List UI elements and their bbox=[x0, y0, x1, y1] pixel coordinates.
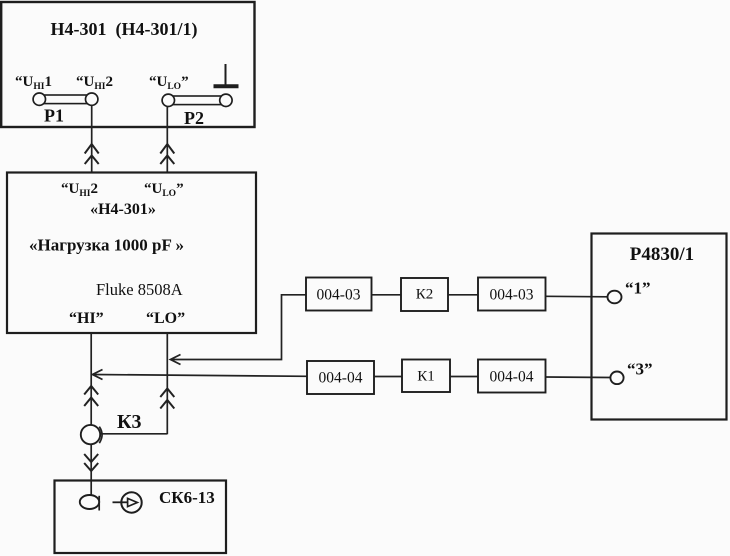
shorting bar P2 bbox=[162, 94, 232, 106]
wire HI down from load box bbox=[90, 334, 92, 426]
shorting bar P1 bbox=[33, 93, 98, 105]
CK6-13 input connector bbox=[80, 495, 99, 509]
wire UHI2 from P1 to load box bbox=[91, 105, 93, 172]
svg-text:P1: P1 bbox=[44, 106, 64, 126]
wire ULO from P2 to load box bbox=[166, 106, 168, 172]
svg-text:К3: К3 bbox=[117, 411, 142, 433]
box 004-04 right bbox=[478, 360, 546, 393]
wire LO down from load box bbox=[166, 334, 168, 435]
terminal 1 circle bbox=[608, 291, 622, 304]
signal source symbol circled arrow bbox=[113, 492, 142, 512]
arrow junction 004-03 line into LO wire bbox=[171, 355, 181, 365]
arrow up double on UHI2 wire bbox=[85, 144, 99, 164]
svg-text:К1: К1 bbox=[417, 369, 435, 385]
wire 004-03 to terminal 1 bbox=[546, 295, 608, 298]
svg-text:СК6-13: СК6-13 bbox=[159, 488, 215, 507]
connector tick bbox=[98, 496, 100, 511]
wire K2 to 004-03 right bbox=[448, 294, 478, 296]
box K1 bbox=[402, 360, 450, 393]
svg-text:“HI”: “HI” bbox=[69, 310, 104, 327]
row1 wire from 004-03 chain down to LO wire bbox=[171, 295, 307, 360]
block H4-301 (H4-301/1) calibrator box bbox=[1, 2, 254, 127]
block CK6-13 box bbox=[55, 481, 227, 554]
wire LO horizontal to switch K3 bbox=[100, 433, 167, 435]
arrow junction 004-04 line into HI wire bbox=[93, 370, 103, 380]
svg-text:004-04: 004-04 bbox=[490, 369, 534, 386]
svg-text:Н4-301 (Н4-301/1): Н4-301 (Н4-301/1) bbox=[51, 19, 198, 40]
svg-text:Fluke 8508A: Fluke 8508A bbox=[96, 280, 183, 299]
arrow up double on LO wire bbox=[160, 389, 174, 409]
box 004-04 left bbox=[307, 361, 374, 394]
switch K3 tick bbox=[99, 427, 102, 444]
row2 wire from 004-04 to HI wire bbox=[93, 375, 307, 377]
arrow down double on CK6 wire bbox=[84, 454, 98, 471]
svg-text:004-03: 004-03 bbox=[490, 287, 534, 304]
switch K3 circle bbox=[81, 425, 100, 444]
svg-text:P2: P2 bbox=[184, 108, 204, 128]
svg-text:004-03: 004-03 bbox=[317, 287, 361, 304]
wire 004-03 to K2 bbox=[372, 294, 402, 296]
ground symbol bbox=[214, 64, 239, 86]
svg-text:К2: К2 bbox=[416, 287, 434, 303]
wire 004-04 to terminal 3 bbox=[546, 376, 611, 379]
svg-text:«Нагрузка 1000 pF »: «Нагрузка 1000 pF » bbox=[29, 236, 184, 255]
svg-text:“3”: “3” bbox=[627, 360, 653, 379]
svg-text:004-04: 004-04 bbox=[319, 370, 363, 387]
terminal 3 circle bbox=[610, 372, 623, 385]
svg-text:“LO”: “LO” bbox=[146, 310, 185, 327]
box 004-03 right bbox=[478, 278, 546, 311]
block P4830/1 box bbox=[592, 234, 727, 420]
wire 004-04 to K1 bbox=[374, 376, 402, 378]
wire K3 to CK6-13 bbox=[90, 444, 92, 495]
svg-text:Р4830/1: Р4830/1 bbox=[630, 244, 694, 265]
arrow up double on HI wire bbox=[84, 386, 98, 406]
box 004-03 left bbox=[306, 278, 372, 311]
svg-text:«Н4-301»: «Н4-301» bbox=[90, 201, 156, 218]
svg-text:“1”: “1” bbox=[625, 279, 651, 298]
block Fluke 8508A load box bbox=[7, 173, 256, 334]
wire K1 to 004-04 right bbox=[450, 376, 478, 378]
arrow up double on ULO wire bbox=[160, 144, 174, 164]
box K2 bbox=[401, 278, 448, 311]
